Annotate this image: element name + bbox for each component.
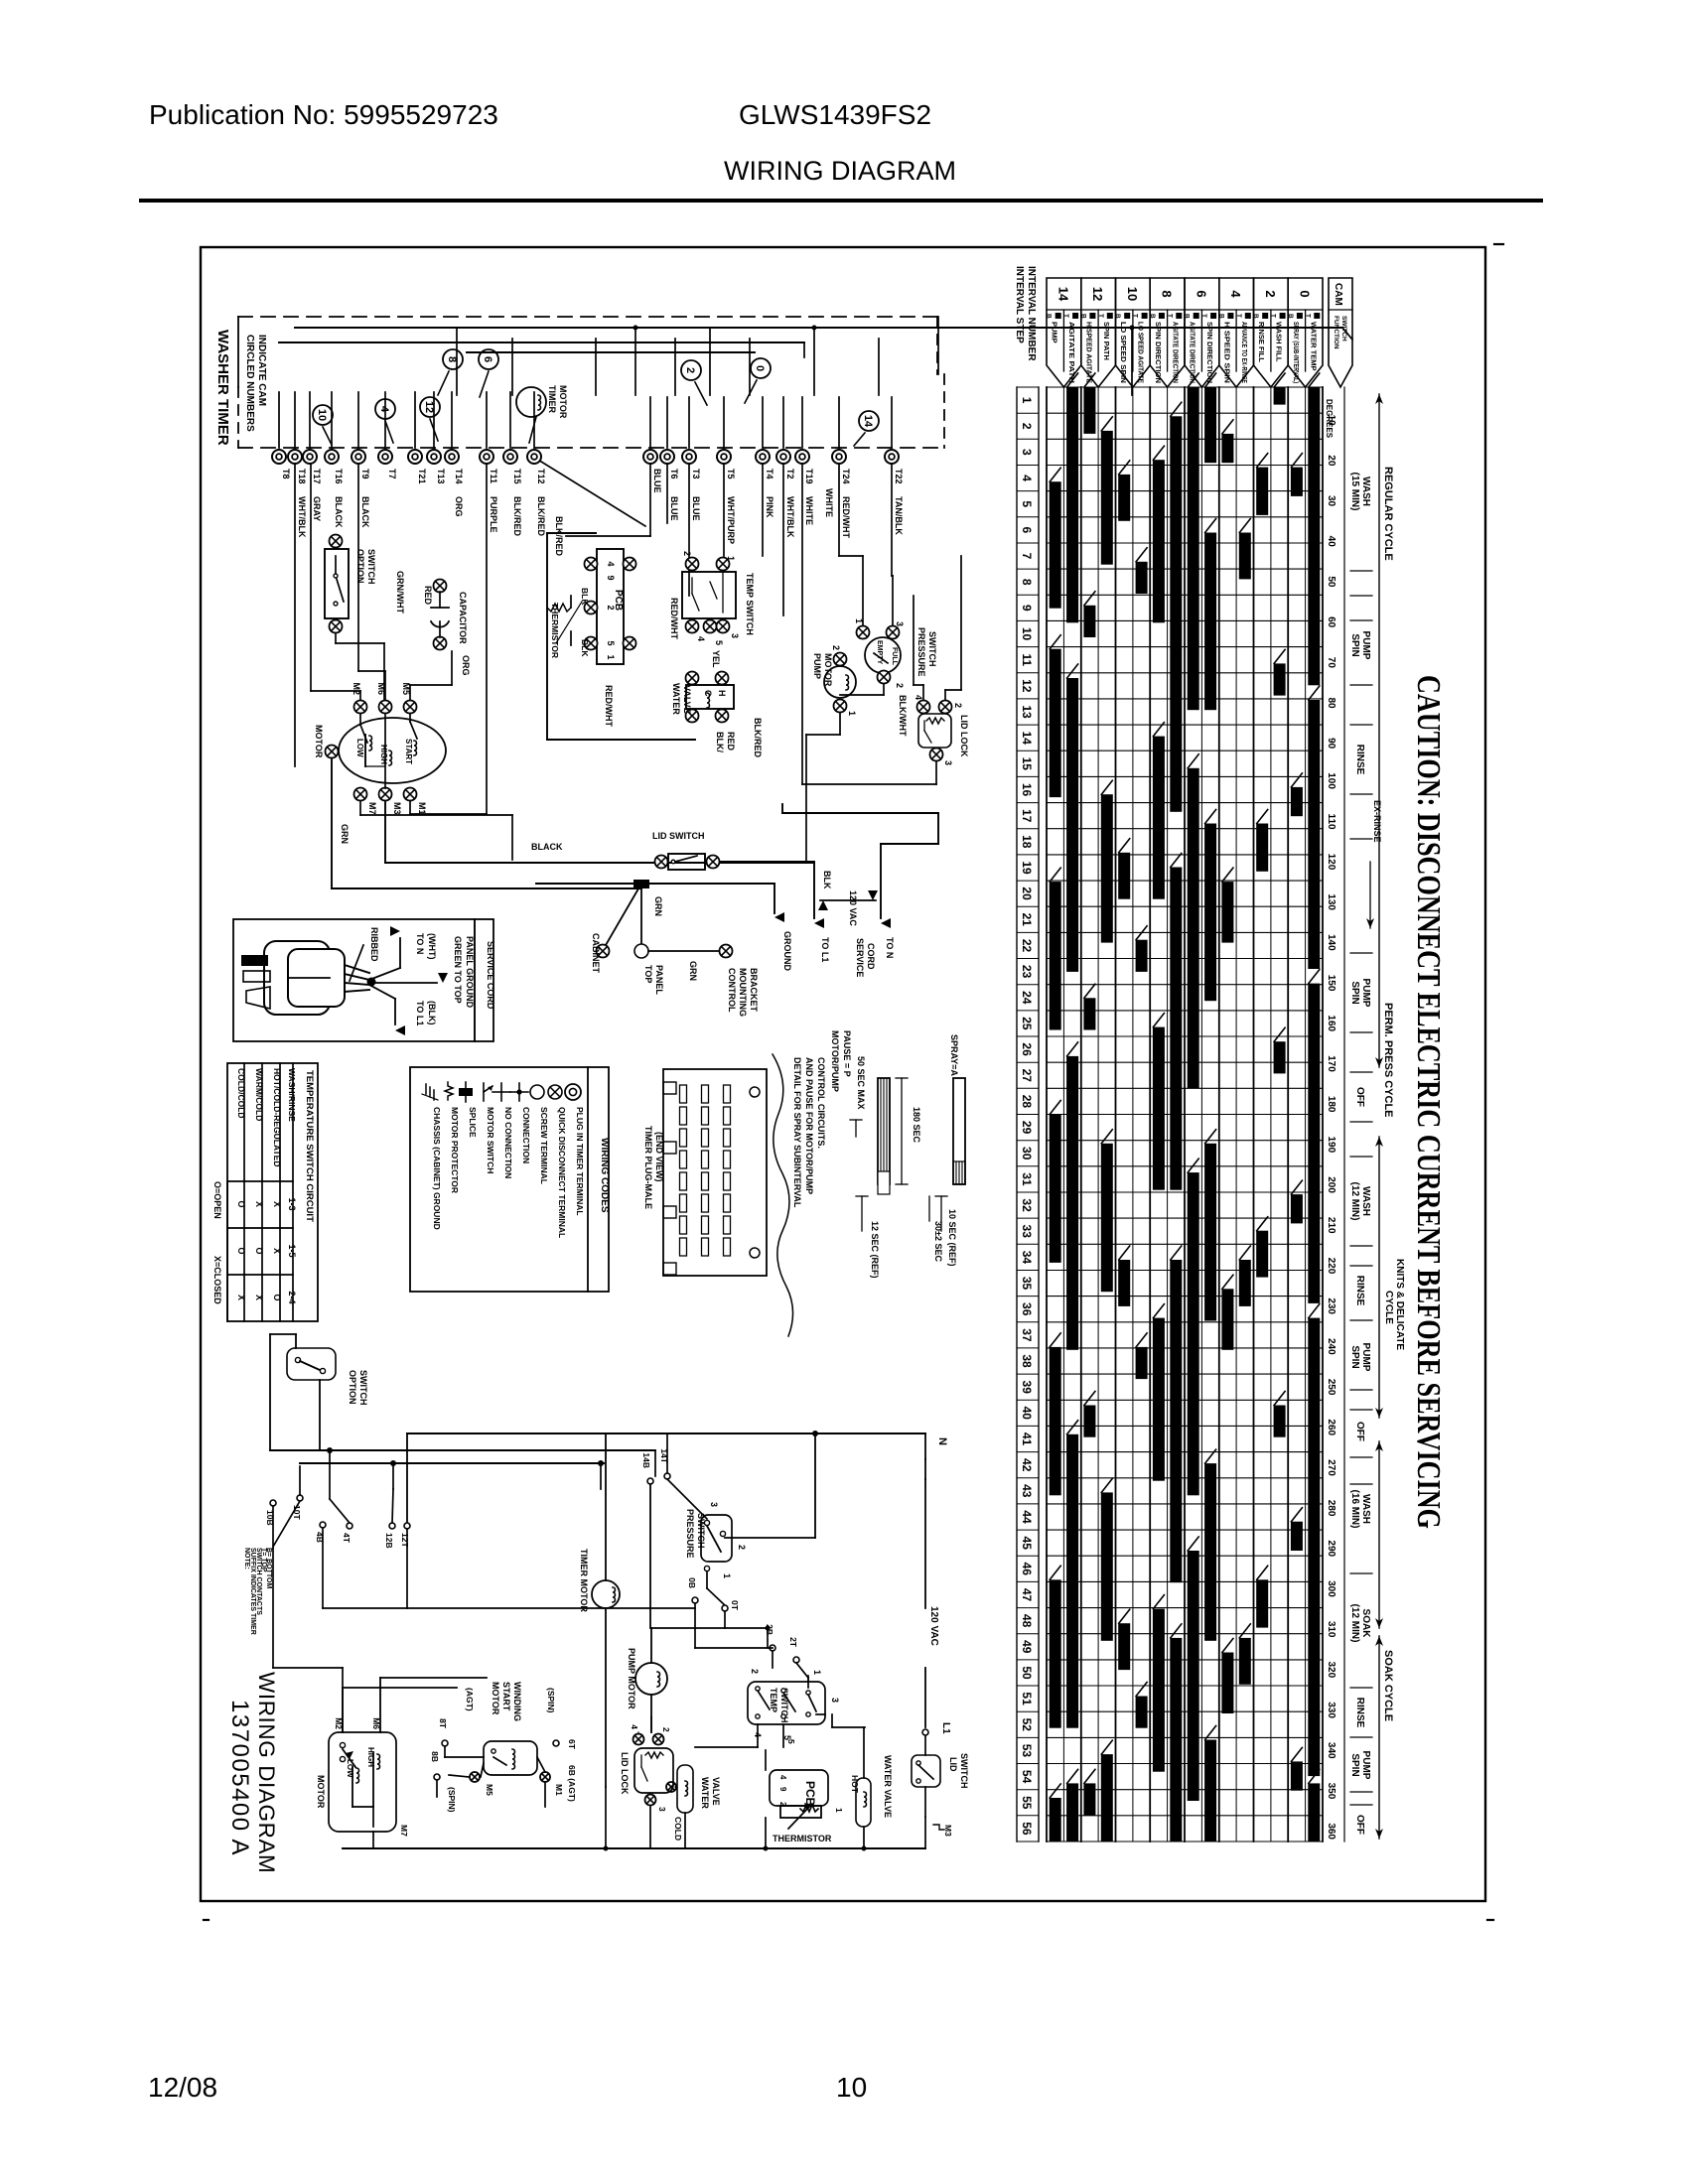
svg-text:VALVE: VALVE (711, 1777, 721, 1806)
svg-text:19: 19 (1020, 861, 1034, 875)
svg-text:1-5: 1-5 (287, 1244, 297, 1257)
svg-text:(16 MIN): (16 MIN) (1349, 1490, 1360, 1529)
svg-text:GLWS1439FS2: GLWS1439FS2 (739, 99, 931, 130)
timer terminal T12 (527, 450, 546, 536)
svg-text:H: H (717, 690, 727, 697)
water valve hot (lower) (850, 1727, 893, 1848)
svg-text:22: 22 (1020, 939, 1034, 953)
svg-text:GREEN TO TOP: GREEN TO TOP (453, 936, 463, 1004)
water valve cold (lower) (666, 1765, 721, 1848)
svg-text:2: 2 (1263, 290, 1278, 297)
svg-text:5: 5 (606, 640, 616, 645)
svg-text:SWITCH: SWITCH (358, 1370, 368, 1406)
cam 2 (681, 360, 701, 380)
ground arrow (774, 912, 792, 971)
svg-text:LO SPEED AGITATE: LO SPEED AGITATE (1137, 322, 1146, 383)
svg-text:CAPACITOR: CAPACITOR (458, 592, 468, 644)
svg-text:GRN: GRN (653, 896, 663, 916)
svg-text:50: 50 (1326, 576, 1336, 588)
svg-text:SWITCH: SWITCH (927, 631, 937, 667)
svg-text:T: T (1304, 314, 1311, 318)
svg-text:37: 37 (1020, 1328, 1034, 1342)
svg-text:60: 60 (1326, 616, 1336, 628)
svg-text:BLK/RED: BLK/RED (512, 496, 522, 536)
svg-text:170: 170 (1326, 1055, 1336, 1072)
svg-text:T8: T8 (281, 469, 291, 479)
svg-text:MOTOR: MOTOR (558, 385, 568, 419)
svg-text:RIBBED: RIBBED (369, 927, 379, 962)
svg-text:BLUE: BLUE (691, 496, 701, 521)
timer terminal BLUE (643, 450, 662, 493)
svg-text:MOTOR SWITCH: MOTOR SWITCH (486, 1107, 495, 1173)
chart black bars (1050, 373, 1321, 1842)
svg-text:TIMER MOTOR: TIMER MOTOR (579, 1549, 589, 1612)
svg-text:BLACK: BLACK (334, 496, 344, 528)
svg-text:WASH: WASH (1360, 1494, 1371, 1524)
cam 8 (443, 349, 463, 369)
svg-text:T14: T14 (454, 469, 464, 484)
svg-text:WHITE: WHITE (824, 488, 834, 517)
svg-text:RED/WHT: RED/WHT (604, 685, 614, 727)
svg-text:54: 54 (1020, 1770, 1034, 1784)
option switch (upper) (325, 535, 384, 700)
svg-text:RED/WHT: RED/WHT (669, 598, 679, 639)
svg-text:BLK/WHT: BLK/WHT (898, 695, 908, 737)
svg-text:BLK/RED: BLK/RED (554, 516, 564, 556)
svg-text:8T: 8T (438, 1718, 448, 1729)
wiring codes legend box (410, 1067, 610, 1292)
svg-text:47: 47 (1020, 1588, 1034, 1602)
timer terminal T13 (427, 450, 446, 484)
svg-text:T16: T16 (334, 469, 344, 484)
svg-text:32: 32 (1020, 1198, 1034, 1212)
svg-text:T19: T19 (804, 469, 814, 484)
svg-text:10B: 10B (265, 1510, 275, 1526)
option switch (lower) (270, 1334, 368, 1450)
svg-text:QUICK DISCONNECT TERMINAL: QUICK DISCONNECT TERMINAL (557, 1107, 567, 1238)
svg-text:WASH: WASH (1360, 1186, 1371, 1216)
cycle phase labels (1349, 473, 1371, 1835)
ground junction (536, 880, 774, 913)
svg-text:O: O (254, 1247, 264, 1254)
svg-text:50: 50 (1020, 1666, 1034, 1680)
svg-text:WHITE: WHITE (804, 496, 814, 525)
svg-text:RED: RED (423, 586, 433, 606)
svg-text:49: 49 (1020, 1640, 1034, 1654)
diagram border frame (201, 247, 1485, 1901)
temperature switch table (212, 1063, 318, 1321)
svg-text:O: O (236, 1247, 246, 1254)
svg-text:TIMER PLUG-MALE: TIMER PLUG-MALE (643, 1126, 653, 1209)
svg-text:150: 150 (1326, 975, 1336, 992)
timer contacts lower: 10B (265, 1500, 276, 1668)
svg-text:OPTION: OPTION (355, 549, 365, 584)
svg-text:3: 3 (709, 1502, 719, 1507)
svg-text:17: 17 (1020, 809, 1034, 823)
black wire from M3 (385, 801, 814, 863)
svg-text:2: 2 (831, 645, 841, 650)
svg-text:WHT/PURP: WHT/PURP (726, 496, 736, 544)
svg-text:8: 8 (1160, 290, 1175, 297)
svg-text:8: 8 (446, 356, 458, 362)
svg-text:13: 13 (1020, 705, 1034, 719)
timer chart grid (1047, 387, 1323, 1842)
lower bus wires (270, 1433, 925, 1526)
svg-text:CABINET: CABINET (591, 933, 601, 974)
timer motor (lower) (579, 1433, 620, 1787)
svg-text:T9: T9 (360, 469, 370, 479)
svg-text:4: 4 (696, 636, 706, 641)
rotated landscape drawing group (201, 244, 1503, 1920)
svg-text:26: 26 (1020, 1042, 1034, 1056)
svg-text:6: 6 (482, 356, 493, 362)
svg-text:3: 3 (895, 621, 905, 626)
svg-text:9: 9 (606, 575, 616, 580)
svg-text:CONNECTION: CONNECTION (521, 1107, 531, 1163)
svg-text:WASH FILL: WASH FILL (1275, 322, 1284, 362)
timer contact 12B (384, 1463, 395, 1549)
svg-text:280: 280 (1326, 1500, 1336, 1517)
timer terminal T18 (288, 450, 307, 538)
svg-text:X: X (254, 1201, 264, 1207)
timer terminal T7 (378, 450, 397, 479)
svg-text:T11: T11 (489, 469, 498, 483)
svg-text:Publication No: 5995529723: Publication No: 5995529723 (149, 99, 498, 130)
svg-text:AGITATE PATH: AGITATE PATH (1067, 322, 1076, 383)
svg-text:10: 10 (316, 409, 328, 421)
svg-text:ADVANCE TO EX-RINSE: ADVANCE TO EX-RINSE (1240, 322, 1249, 383)
svg-text:9: 9 (1020, 605, 1034, 612)
svg-text:WATER TEMP: WATER TEMP (1309, 322, 1318, 370)
svg-text:(BLK): (BLK) (427, 1001, 437, 1025)
svg-text:T12: T12 (536, 469, 546, 484)
svg-text:1: 1 (812, 1670, 822, 1675)
svg-text:LOW: LOW (355, 739, 364, 757)
svg-text:SPIN DIRECTION: SPIN DIRECTION (1205, 322, 1214, 383)
svg-text:4B: 4B (315, 1532, 325, 1543)
cycle annotation arrows (1366, 394, 1405, 1839)
cam 14 (859, 411, 879, 431)
svg-text:12: 12 (1090, 287, 1105, 301)
svg-text:INTERVAL NUMBER: INTERVAL NUMBER (1026, 266, 1037, 361)
svg-text:12: 12 (423, 401, 435, 413)
svg-text:53: 53 (1020, 1744, 1034, 1758)
svg-text:16: 16 (1020, 783, 1034, 797)
svg-text:320: 320 (1326, 1662, 1336, 1679)
svg-text:L1: L1 (940, 1722, 951, 1734)
svg-text:8B: 8B (430, 1751, 440, 1762)
svg-text:3: 3 (943, 760, 953, 765)
svg-text:1: 1 (606, 654, 616, 659)
svg-text:T: T (1200, 314, 1207, 318)
svg-text:INTERVAL STEP: INTERVAL STEP (1014, 266, 1025, 343)
to N (wht) lead (369, 926, 437, 980)
timer terminal T14 (445, 450, 464, 517)
cam 0 (751, 358, 771, 378)
svg-text:140: 140 (1326, 934, 1336, 951)
svg-text:0B: 0B (687, 1577, 697, 1588)
svg-text:70: 70 (1326, 657, 1336, 669)
svg-text:T21: T21 (417, 469, 427, 484)
cam header boxes (1046, 278, 1323, 387)
svg-text:2: 2 (661, 1727, 671, 1732)
svg-text:X: X (236, 1295, 246, 1300)
svg-text:CAUTION: DISCONNECT ELECTRIC: CAUTION: DISCONNECT ELECTRIC CURRENT BEF… (1410, 675, 1447, 1529)
svg-text:LID LOCK: LID LOCK (959, 715, 969, 757)
svg-text:GRN/WHT: GRN/WHT (395, 571, 405, 614)
svg-text:340: 340 (1326, 1742, 1336, 1759)
svg-text:WHT/BLK: WHT/BLK (785, 496, 795, 538)
svg-text:T6: T6 (669, 469, 679, 479)
svg-text:SWITCH: SWITCH (366, 549, 376, 585)
svg-text:B: B (1046, 314, 1053, 319)
svg-text:SPRAY (SUB-INTERVAL): SPRAY (SUB-INTERVAL) (1292, 322, 1301, 383)
timer terminal T8 (272, 450, 291, 479)
svg-text:PUMP: PUMP (1360, 1343, 1371, 1372)
svg-text:29: 29 (1020, 1121, 1034, 1135)
pressure switch (upper) (854, 618, 937, 688)
svg-text:2: 2 (737, 1545, 747, 1550)
svg-text:2: 2 (1020, 423, 1034, 430)
service cord plug (241, 941, 376, 1015)
svg-text:48: 48 (1020, 1614, 1034, 1628)
pcb pins (585, 558, 636, 660)
svg-text:21: 21 (1020, 913, 1034, 927)
svg-text:OFF: OFF (1354, 1422, 1365, 1441)
svg-text:HOT: HOT (850, 1775, 860, 1794)
lid switch (upper) (652, 831, 720, 870)
svg-text:FUNCTION: FUNCTION (1333, 316, 1339, 349)
svg-text:90: 90 (1326, 738, 1336, 750)
spray detail note (792, 1057, 826, 1208)
svg-text:T: T (1270, 314, 1277, 318)
svg-text:SPIN PATH: SPIN PATH (1102, 322, 1111, 360)
svg-text:WIRING CODES: WIRING CODES (599, 1138, 610, 1213)
svg-text:12: 12 (1020, 679, 1034, 693)
svg-text:MOTOR: MOTOR (314, 725, 324, 758)
svg-text:12/08: 12/08 (148, 2072, 217, 2103)
svg-text:SCREW TERMINAL: SCREW TERMINAL (539, 1107, 549, 1184)
svg-text:SPIN: SPIN (1349, 1345, 1360, 1368)
svg-text:CORD: CORD (866, 943, 876, 970)
capacitor C (upper) (431, 580, 468, 650)
svg-text:M1: M1 (417, 802, 427, 815)
svg-text:2: 2 (953, 703, 963, 708)
svg-text:10: 10 (1326, 415, 1336, 427)
svg-text:2: 2 (682, 551, 692, 556)
svg-text:B= BOTTOM: B= BOTTOM (265, 1548, 272, 1588)
svg-text:2: 2 (750, 1669, 760, 1674)
timer terminal T24 (832, 450, 851, 538)
phase tick marks (1350, 571, 1372, 1805)
svg-text:6: 6 (1194, 290, 1208, 297)
svg-text:WHT/BLK: WHT/BLK (297, 496, 307, 538)
svg-text:CONTROL CIRCUITS.: CONTROL CIRCUITS. (816, 1057, 826, 1149)
svg-text:(15 MIN): (15 MIN) (1349, 473, 1360, 511)
svg-text:X: X (272, 1201, 282, 1207)
svg-text:GRN: GRN (340, 824, 350, 844)
svg-text:(12 MIN): (12 MIN) (1349, 1182, 1360, 1221)
svg-text:56: 56 (1020, 1822, 1034, 1836)
svg-text:T4: T4 (765, 469, 774, 479)
svg-text:46: 46 (1020, 1563, 1034, 1576)
svg-text:ORG: ORG (454, 496, 464, 517)
svg-text:1: 1 (1020, 397, 1034, 404)
svg-text:44: 44 (1020, 1510, 1034, 1524)
grn wire from motor frame (332, 758, 641, 888)
svg-text:RINSE: RINSE (1354, 1276, 1365, 1306)
svg-text:TAN/BLK: TAN/BLK (894, 496, 904, 535)
svg-text:10: 10 (1020, 627, 1034, 641)
svg-text:137005400 A: 137005400 A (226, 1700, 253, 1856)
svg-text:DETAIL FOR SPRAY SUBINTERVAL: DETAIL FOR SPRAY SUBINTERVAL (792, 1057, 802, 1208)
svg-text:T: T (1062, 314, 1069, 318)
thermistor (lower) (773, 1803, 832, 1843)
svg-text:0T: 0T (730, 1600, 740, 1611)
svg-text:HIGH: HIGH (366, 1747, 375, 1767)
svg-text:TO N: TO N (415, 933, 425, 954)
svg-text:AND PAUSE FOR MOTOR/PUMP: AND PAUSE FOR MOTOR/PUMP (804, 1057, 814, 1194)
svg-text:20: 20 (1020, 887, 1034, 900)
svg-text:BLK: BLK (580, 639, 590, 657)
svg-text:T24: T24 (841, 469, 851, 484)
timer terminal T16 (325, 450, 344, 528)
svg-text:4: 4 (378, 406, 390, 413)
svg-text:4: 4 (630, 1724, 639, 1729)
wires pressure switch (707, 1431, 818, 1605)
timer terminal T17 (303, 450, 322, 521)
lower contacts 0B 0T (651, 1577, 771, 1648)
svg-text:CIRCLED NUMBERS: CIRCLED NUMBERS (244, 335, 255, 432)
temp switch (upper) (682, 551, 755, 645)
svg-text:WATER: WATER (671, 683, 681, 715)
timer terminal T11 (480, 450, 498, 533)
svg-text:PUMP: PUMP (1360, 1751, 1371, 1780)
lower misc wires (270, 1410, 865, 1747)
svg-text:2T: 2T (788, 1637, 798, 1648)
svg-text:WASH: WASH (1360, 477, 1371, 506)
crop tick bottom-left (204, 1919, 209, 1921)
svg-text:3: 3 (830, 1698, 840, 1703)
svg-text:THERMISTOR: THERMISTOR (773, 1834, 832, 1843)
motor windings LOW HIGH START (355, 714, 417, 788)
svg-text:39: 39 (1020, 1381, 1034, 1395)
svg-text:12 SEC (REF): 12 SEC (REF) (870, 1221, 880, 1279)
svg-text:SWITCH: SWITCH (1340, 316, 1347, 341)
svg-text:7: 7 (1020, 553, 1034, 560)
svg-text:BRACKET: BRACKET (749, 968, 759, 1013)
svg-text:51: 51 (1020, 1692, 1034, 1706)
svg-text:TO N: TO N (885, 937, 895, 958)
svg-text:EX-RINSE: EX-RINSE (1372, 800, 1382, 843)
svg-text:T: T (1166, 314, 1173, 318)
lower contacts 14T 14B (641, 1433, 707, 1628)
crop tick bottom-right (1487, 1919, 1493, 1921)
svg-text:COLD: COLD (673, 1817, 683, 1841)
svg-text:X=CLOSED: X=CLOSED (212, 1256, 222, 1304)
motor (lower) (316, 1678, 409, 1837)
12 sec ref dimension (856, 1196, 880, 1279)
svg-text:230: 230 (1326, 1297, 1336, 1314)
timer terminal T22 (885, 450, 904, 535)
svg-text:6T: 6T (567, 1739, 577, 1750)
svg-text:270: 270 (1326, 1459, 1336, 1476)
timer terminal T9 (352, 450, 370, 528)
svg-text:M3: M3 (392, 802, 402, 815)
svg-text:27: 27 (1020, 1069, 1034, 1083)
svg-text:6: 6 (1020, 527, 1034, 534)
svg-text:5: 5 (1020, 500, 1034, 507)
svg-text:THERMISTOR: THERMISTOR (550, 603, 560, 658)
svg-text:38: 38 (1020, 1354, 1034, 1368)
svg-text:TO L1: TO L1 (820, 937, 830, 962)
svg-text:(SPIN): (SPIN) (546, 1688, 556, 1713)
svg-text:9: 9 (778, 1787, 787, 1792)
timer contact 10T (273, 1466, 303, 1547)
svg-text:2: 2 (684, 367, 696, 373)
svg-text:30±2 SEC: 30±2 SEC (933, 1221, 943, 1262)
svg-text:BLK/: BLK/ (715, 732, 725, 752)
svg-text:12T: 12T (400, 1533, 410, 1548)
svg-text:T15: T15 (512, 469, 522, 484)
svg-text:240: 240 (1326, 1338, 1336, 1355)
svg-text:43: 43 (1020, 1484, 1034, 1498)
svg-text:PANEL GROUND: PANEL GROUND (465, 936, 475, 1009)
to L1 (blk) lead (369, 985, 437, 1035)
washer timer dashed enclosure (238, 317, 944, 448)
svg-text:5: 5 (714, 640, 724, 645)
timer contact 12T (400, 1523, 410, 1608)
svg-text:WATER VALVE: WATER VALVE (883, 1755, 893, 1818)
thermistor RT1 (upper) (547, 588, 590, 658)
svg-text:2: 2 (606, 605, 616, 610)
svg-text:CYCLE: CYCLE (1383, 1291, 1394, 1324)
svg-text:O: O (236, 1200, 246, 1207)
svg-text:BLK: BLK (822, 871, 832, 889)
svg-text:350: 350 (1326, 1783, 1336, 1800)
svg-text:42: 42 (1020, 1458, 1034, 1472)
svg-text:GROUND: GROUND (782, 931, 792, 971)
svg-text:260: 260 (1326, 1419, 1336, 1435)
svg-text:START: START (501, 1682, 511, 1711)
service cord wire to N (782, 804, 938, 977)
svg-text:24: 24 (1020, 991, 1034, 1005)
svg-text:GRN: GRN (688, 961, 698, 981)
cam switch blades (323, 371, 865, 446)
lower contacts 8T 8B M5 M1 6T 6B (430, 1718, 577, 1813)
lower bottom rail (343, 1717, 925, 1851)
timer terminal T15 (503, 450, 522, 536)
timer motor (upper) (516, 385, 568, 419)
svg-text:WASH/RINSE: WASH/RINSE (287, 1068, 297, 1122)
svg-text:210: 210 (1326, 1217, 1336, 1234)
svg-text:120 VAC: 120 VAC (848, 890, 858, 926)
svg-text:11: 11 (1020, 653, 1034, 666)
svg-text:40: 40 (1020, 1407, 1034, 1421)
svg-text:HIGH: HIGH (379, 745, 388, 764)
svg-text:2B: 2B (765, 1624, 774, 1635)
control mounting bracket ground (648, 945, 759, 1018)
svg-text:20: 20 (1326, 455, 1336, 467)
svg-text:SERVICE CORD: SERVICE CORD (486, 941, 495, 1010)
svg-text:TIMER: TIMER (547, 385, 557, 413)
svg-text:CAM: CAM (1333, 283, 1343, 306)
svg-text:PUMP: PUMP (1360, 979, 1371, 1008)
svg-text:T18: T18 (297, 469, 307, 484)
svg-text:M5: M5 (485, 1784, 494, 1796)
pcb U1 (upper) (597, 549, 624, 664)
svg-text:T: T (1097, 314, 1104, 318)
